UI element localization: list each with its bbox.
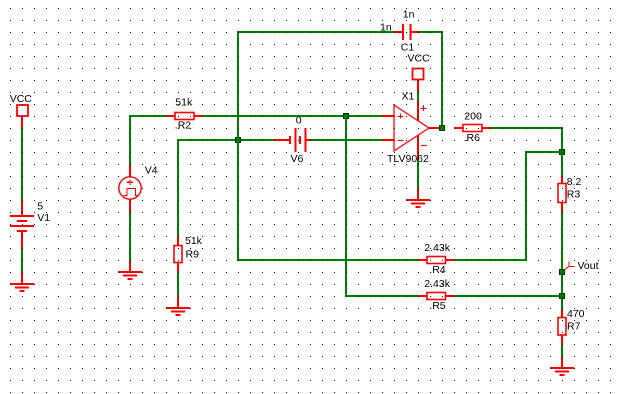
ground (under R7) <box>550 356 574 375</box>
wire <box>238 32 418 260</box>
wire <box>177 272 179 296</box>
ground (under V4) <box>118 260 142 279</box>
resistor R6 <box>454 110 490 144</box>
power symbol VCC (above op-amp) <box>408 53 431 93</box>
wire <box>561 152 563 176</box>
junction (non-inverting input node) <box>344 114 349 119</box>
op-amp U1 (X1 TLV9062) <box>382 91 442 166</box>
wire <box>561 344 563 356</box>
battery V6 <box>274 115 310 166</box>
wire <box>346 116 418 296</box>
+ input mark <box>398 113 404 118</box>
wire <box>129 212 131 260</box>
resistor R7 <box>558 308 585 344</box>
pin V+ supply <box>417 100 419 121</box>
wire <box>417 160 419 189</box>
wire <box>310 139 382 141</box>
+ supply mark <box>421 105 427 111</box>
wire <box>21 128 23 200</box>
resistor R4 <box>418 242 454 276</box>
wire <box>418 32 442 128</box>
junction (op-amp output node) <box>440 126 445 131</box>
junction node Vout <box>560 270 565 275</box>
ground (under op-amp) <box>406 188 430 207</box>
junction (R6/R3/R4 node) <box>560 150 565 155</box>
pin + input <box>382 115 394 117</box>
pin output <box>429 127 442 129</box>
junction (R5/R7 node) <box>560 294 565 299</box>
wire <box>130 116 166 164</box>
pin V- supply <box>417 136 419 161</box>
- supply mark <box>421 145 427 147</box>
wire <box>454 152 562 260</box>
resistor R3 <box>558 176 582 212</box>
wire <box>178 140 274 236</box>
probe pin Vout <box>564 260 599 272</box>
source V4 (pulse source) <box>119 164 158 212</box>
ground (under V1) <box>10 272 34 291</box>
power symbol VCC (left) <box>10 93 33 128</box>
resistor R2 <box>166 97 202 132</box>
wire <box>561 212 563 308</box>
battery V1 <box>10 200 50 248</box>
wire <box>202 115 382 117</box>
pin - input <box>382 139 394 141</box>
wire <box>454 295 562 297</box>
resistor R9 <box>174 235 203 272</box>
resistor R5 <box>418 278 454 312</box>
wire <box>417 92 419 100</box>
wire <box>490 128 562 152</box>
- input mark <box>398 140 404 142</box>
capacitor C1 <box>380 8 418 53</box>
junction <box>236 138 241 143</box>
ground (under R9) <box>166 296 190 315</box>
wire <box>21 248 23 272</box>
